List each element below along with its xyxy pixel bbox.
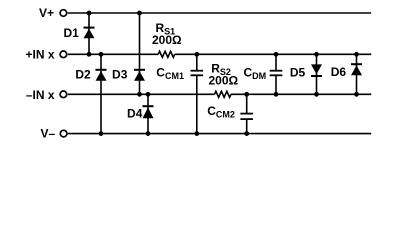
svg-text:D4: D4 [127,107,143,121]
svg-text:D3: D3 [112,68,128,82]
svg-text:CDM: CDM [244,65,267,81]
svg-text:200Ω: 200Ω [152,33,182,47]
svg-text:V+: V+ [39,6,54,20]
svg-text:–IN x: –IN x [26,88,55,102]
svg-text:CCM1: CCM1 [156,65,184,81]
svg-text:200Ω: 200Ω [209,74,239,88]
svg-text:V–: V– [41,127,56,141]
svg-text:D5: D5 [290,65,306,79]
svg-text:D6: D6 [331,65,347,79]
svg-text:CCM2: CCM2 [207,104,235,120]
svg-text:+IN x: +IN x [25,48,54,62]
svg-text:D2: D2 [75,68,91,82]
svg-text:D1: D1 [63,26,79,40]
